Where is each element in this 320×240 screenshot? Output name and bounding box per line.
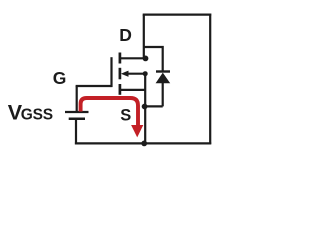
- wire drain vertical: [143, 15, 145, 59]
- transistor Q1 channel bar body: [119, 68, 122, 80]
- wire body-source vertical: [144, 73, 146, 144]
- transistor Q1 channel bar source: [119, 84, 122, 95]
- node body corner junction: [143, 71, 148, 76]
- transistor Q1 body lead: [127, 73, 145, 75]
- wire top rail: [143, 14, 212, 16]
- diode D1 cathode bar: [156, 70, 170, 72]
- transistor Q1 drain lead: [121, 57, 146, 59]
- wire jog to body diode: [144, 47, 163, 72]
- diode D1 triangle: [156, 73, 171, 84]
- transistor Q1 body arrow head: [121, 71, 129, 77]
- wire right rail: [209, 14, 211, 145]
- diode D1 anode lead: [162, 83, 164, 106]
- node bottom rail junction: [141, 141, 147, 147]
- svg-text:GSS: GSS: [21, 107, 53, 124]
- svg-text:G: G: [53, 68, 67, 88]
- red current path arrow: [81, 98, 138, 127]
- wire battery negative lead: [75, 120, 77, 145]
- transistor Q1 channel bar drain: [119, 53, 122, 64]
- wire gate: [76, 85, 112, 87]
- svg-text:S: S: [120, 107, 131, 125]
- battery VGSS negative plate: [69, 118, 85, 121]
- node drain junction: [143, 56, 149, 62]
- svg-text:D: D: [119, 25, 132, 45]
- battery VGSS positive plate: [65, 111, 89, 113]
- wire battery positive lead: [76, 86, 78, 112]
- wire bottom rail: [75, 142, 211, 144]
- transistor Q1 source lead: [121, 89, 145, 91]
- transistor Q1 gate plate: [110, 57, 112, 87]
- wire source node to diode anode: [145, 105, 163, 107]
- node source junction: [142, 104, 148, 110]
